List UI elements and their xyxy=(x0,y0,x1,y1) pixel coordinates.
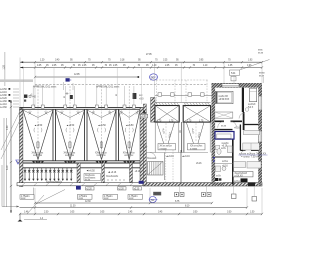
left annotations xyxy=(0,52,144,213)
left wall hatched xyxy=(20,108,23,187)
filter cell 1 xyxy=(23,86,53,163)
svg-text:xxXxx: xxXxx xyxy=(234,180,241,183)
svg-text:+0.00: +0.00 xyxy=(141,115,147,118)
building main xyxy=(20,68,144,187)
filter cell 3 xyxy=(87,86,116,163)
wall y150.5 right xyxy=(240,149,258,151)
svg-text:xxxXX xx: xxxXX xx xyxy=(65,154,75,157)
bottom wall full xyxy=(17,183,262,186)
svg-text:x2.20: x2.20 xyxy=(86,188,92,191)
wall y124.5 right part xyxy=(244,124,258,126)
pipe gallery corridor xyxy=(23,167,140,169)
navy highlighted tub room xyxy=(215,132,234,140)
svg-text:x2.20: x2.20 xyxy=(118,188,124,191)
svg-text:+6.16: +6.16 xyxy=(135,170,141,173)
svg-text:+6.50 XXX: +6.50 XXX xyxy=(219,98,230,101)
wall x240.5 xyxy=(239,125,241,151)
small blue marks xyxy=(213,157,215,159)
filter cell 2 xyxy=(56,86,85,163)
small dark cluster near building top-left xyxy=(24,95,27,98)
top wall of filter hall xyxy=(20,107,144,109)
wall y157 toilet room xyxy=(215,156,233,158)
risers from building to dims xyxy=(20,58,262,108)
equipment marks above cells xyxy=(31,92,145,100)
label boxes under wall xyxy=(20,187,143,199)
room B equipment xyxy=(250,88,257,102)
svg-text:Xxxxxxxx: Xxxxxxxx xyxy=(147,157,157,160)
bottom dim lines xyxy=(35,202,212,204)
svg-text:+6.16: +6.16 xyxy=(168,155,174,158)
svg-text:A: A xyxy=(17,160,19,164)
gallery divider walls xyxy=(77,163,80,185)
svg-text:x2.20: x2.20 xyxy=(134,188,140,191)
svg-text:xxxXX xx: xxxXX xx xyxy=(97,154,107,157)
top dimension lines xyxy=(20,49,270,108)
vertical dimension line xyxy=(10,100,12,213)
wall left of tank5 xyxy=(151,98,155,123)
svg-text:+6.50: +6.50 xyxy=(128,124,134,127)
svg-text:XxxxXxxxXx: XxxxXxxxXx xyxy=(106,175,119,178)
wall below top rooms xyxy=(215,120,242,122)
right wall of cell4 hatched xyxy=(140,108,143,186)
dark piers on bottom wall xyxy=(213,178,219,181)
svg-text:x xxxxx: x xxxxx xyxy=(160,147,168,150)
lower small room fixtures xyxy=(216,166,221,172)
diagonal slope lines xyxy=(1,111,20,159)
filter cells 1-4 xyxy=(23,86,140,163)
svg-text:x6.16: x6.16 xyxy=(196,162,202,165)
svg-text:50: 50 xyxy=(151,75,155,79)
A0 badge bottom left xyxy=(76,186,81,190)
filter cell 4 xyxy=(119,86,141,163)
A0 badge bottom mid xyxy=(139,181,144,184)
svg-text:+6.16: +6.16 xyxy=(234,126,240,129)
room A equipment unit xyxy=(215,91,233,103)
right rooms xyxy=(212,83,268,185)
room F furniture xyxy=(234,162,246,168)
door arcs xyxy=(218,113,246,156)
svg-text:xxxXX xx: xxxXX xx xyxy=(124,154,134,157)
stairs xyxy=(148,162,164,176)
svg-text:+6.50: +6.50 xyxy=(142,146,148,149)
svg-text:x XX.XX: x XX.XX xyxy=(235,174,244,177)
svg-text:+6.16: +6.16 xyxy=(111,171,117,174)
svg-text:12.30: 12.30 xyxy=(85,200,91,203)
leader L path xyxy=(2,165,19,207)
paired square symbols xyxy=(175,193,257,202)
bottom labels and dims xyxy=(18,181,264,222)
svg-text:x+3.60: x+3.60 xyxy=(0,106,7,109)
svg-text:x xxxxx: x xxxxx xyxy=(190,147,198,150)
right section outer walls (dark hatched) xyxy=(212,83,263,88)
tank center dashed lines + bottom dim texts xyxy=(166,123,196,142)
svg-text:12.95: 12.95 xyxy=(74,73,80,76)
V0 blue circle marker top xyxy=(150,74,158,80)
corridor lower wall xyxy=(215,129,233,131)
room A X-bench xyxy=(215,112,233,118)
svg-text:5.0 X: 5.0 X xyxy=(248,106,254,109)
svg-text:xxxXX xx: xxxXX xx xyxy=(33,154,43,157)
svg-text:11.30: 11.30 xyxy=(70,205,76,208)
valve row in pipe gallery xyxy=(24,168,73,179)
dashed reference line xyxy=(35,84,208,86)
dim line row 3 xyxy=(35,76,139,78)
wall x232.8 tall xyxy=(232,132,234,185)
black threshold box xyxy=(241,178,248,182)
svg-text:27.05: 27.05 xyxy=(146,53,152,56)
wall between tank funnels xyxy=(181,122,183,153)
svg-text:+6.50: +6.50 xyxy=(89,170,95,173)
wall between rooms A and B xyxy=(242,88,244,112)
boxed label on row2 xyxy=(230,70,240,75)
svg-text:+6.50: +6.50 xyxy=(69,124,75,127)
svg-text:= xxxxx 7.30 x²: = xxxxx 7.30 x² xyxy=(241,155,259,159)
cell bottom line xyxy=(23,160,140,162)
leader from wall to label xyxy=(27,195,44,214)
cell divider walls xyxy=(53,109,119,161)
annotation stack rows xyxy=(9,88,11,102)
svg-text:xxXxx: xxXxx xyxy=(222,160,229,163)
top edge above cells 5-6 xyxy=(155,95,212,97)
mid rooms below tanks xyxy=(146,152,208,154)
svg-text:+6.16: +6.16 xyxy=(184,155,190,158)
door arc mid xyxy=(150,153,156,159)
vertical double line left xyxy=(3,118,5,207)
svg-text:+6.50: +6.50 xyxy=(100,124,106,127)
svg-text:+6.50: +6.50 xyxy=(37,124,43,127)
open tanks cells 5-6 xyxy=(155,106,179,153)
middle strip stair zone xyxy=(143,104,146,185)
svg-text:50: 50 xyxy=(151,198,155,202)
toilet room fixtures xyxy=(216,146,220,150)
dim line row 1 xyxy=(20,61,262,63)
dim line row 2 xyxy=(20,67,262,69)
benchmark symbol xyxy=(19,214,21,221)
svg-text:6060: 6060 xyxy=(154,192,160,196)
svg-text:APPROVAL D.01 xxxxx: APPROVAL D.01 xxxxx xyxy=(33,86,57,89)
A0 badge xyxy=(66,78,70,81)
dashed line above tanks xyxy=(150,79,209,81)
svg-text:APPROVAL D.01 xxxxx: APPROVAL D.01 xxxxx xyxy=(96,86,120,89)
room D furniture xyxy=(244,131,260,135)
risers from cell walls to dims xyxy=(24,68,142,107)
blue circle marker bottom xyxy=(149,197,156,203)
tank hatch ticks xyxy=(156,103,210,105)
risers bottom xyxy=(35,186,262,214)
A triangle marker xyxy=(16,160,20,164)
